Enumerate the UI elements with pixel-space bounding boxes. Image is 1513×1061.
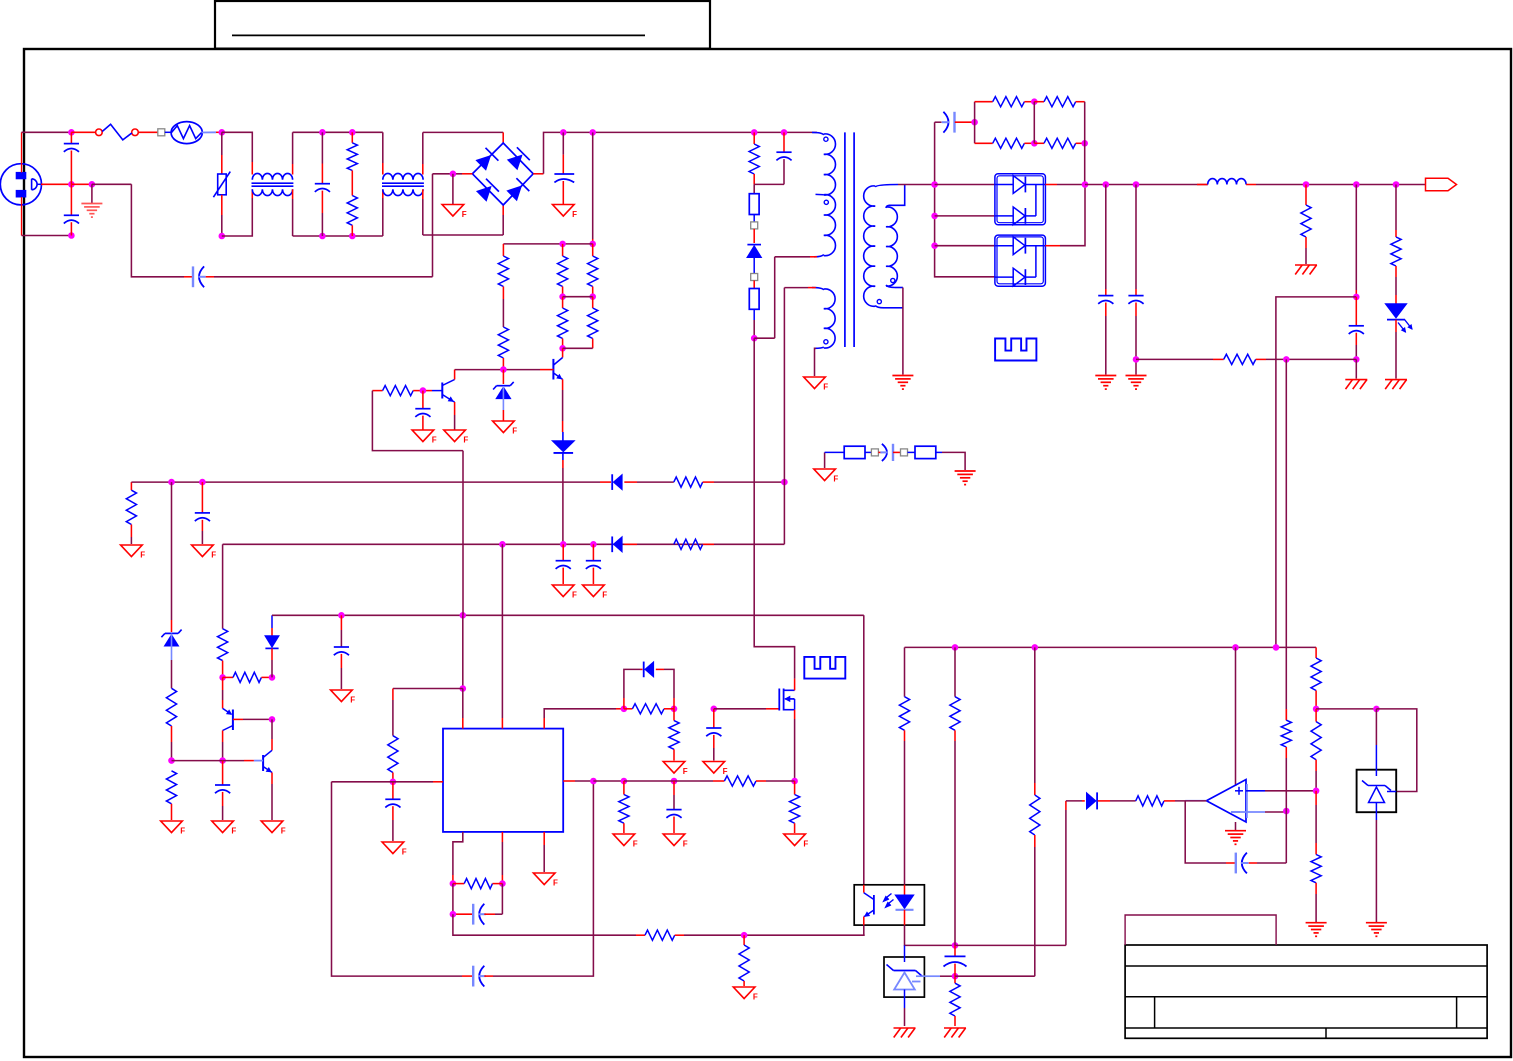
wire rail end [1315, 647, 1317, 658]
primary ground F Q2 [444, 430, 466, 442]
resistor R40 div [1285, 709, 1287, 720]
wire u1 pin gate [543, 718, 545, 729]
wire opamp out [1185, 800, 1206, 802]
node q3 coll [219, 757, 226, 764]
test square TP1 [158, 129, 165, 136]
node q3 base [269, 716, 276, 723]
node input top [68, 129, 75, 136]
svg-text:F: F [231, 827, 236, 836]
node fb rail out [1273, 644, 1280, 651]
wire sense line [1136, 358, 1213, 360]
wire top to choke2 [382, 132, 384, 163]
resistor R5a [562, 244, 564, 256]
wire choke2 tr up [422, 164, 424, 175]
resistor R21 aux1 [674, 477, 703, 487]
resistor R35 shunt [794, 781, 796, 795]
primary ground F c13 [331, 690, 353, 702]
shunt regulator U7 box [1357, 770, 1397, 813]
wire u1 pin b1 [453, 832, 463, 875]
wire snub net left [974, 102, 976, 144]
wire q4 feed [271, 719, 273, 739]
resistor R27 rt [388, 736, 398, 773]
node bleeder bottom [349, 233, 356, 240]
wire snub net right [1084, 102, 1086, 185]
svg-text:F: F [462, 210, 467, 219]
wire opto anode [904, 647, 906, 696]
resistor R43 mid [1315, 709, 1317, 722]
node r13 r14 [1031, 140, 1038, 147]
capacitor C8 y-bridge [878, 451, 882, 453]
resistor R42 top [1311, 658, 1321, 691]
common-mode choke L2 [383, 173, 423, 179]
earth ground shunt [1366, 922, 1387, 924]
capacitor C9 vcc [562, 544, 564, 560]
common-mode choke L1 [252, 173, 292, 179]
node cs a [621, 778, 628, 785]
wire tl431 ref [924, 975, 940, 977]
svg-text:F: F [683, 767, 688, 776]
node xcap bottom [319, 233, 326, 240]
wire opto cathode [905, 925, 956, 945]
wire tl431 anode [904, 1008, 906, 1026]
wire sec gnd [898, 307, 903, 309]
wire rt chain [393, 688, 463, 690]
thermistor RT1 [165, 131, 172, 133]
resistor R37 opto [899, 697, 909, 731]
shunt regulator U7 [1375, 709, 1377, 745]
svg-text:F: F [833, 475, 838, 484]
fusible resistor R18 [825, 451, 845, 453]
diode D9 u2b [995, 215, 1014, 217]
node line2 a [499, 541, 506, 548]
resistor R38 bias [954, 647, 956, 658]
diode D11 u3b [995, 276, 1014, 278]
capacitor C15 fb [462, 975, 472, 977]
test square TP3 [751, 274, 758, 281]
primary ground F r32 [663, 762, 685, 774]
node ref [952, 973, 959, 980]
capacitor C14 rt [392, 782, 394, 800]
earth ground input [91, 184, 93, 203]
transformer T1 aux winding [812, 288, 824, 290]
node source [791, 778, 798, 785]
node fb c [450, 911, 457, 918]
resistor R11 [975, 101, 993, 103]
wire u1 fb loop [332, 782, 463, 976]
resistor R6b [592, 297, 594, 308]
capacitor C11 line1 [201, 482, 203, 513]
node bridge minus [450, 171, 457, 178]
transistor Q3 pnp [222, 677, 224, 690]
wire bridge plus [533, 173, 543, 175]
LED D12 [1395, 295, 1397, 304]
wire choke2 br down [422, 189, 424, 199]
resistor R33 cs [593, 780, 624, 782]
node startup mid [559, 241, 566, 248]
capacitor CX2 earth [192, 266, 194, 287]
bridge diode D3 lower-left [477, 187, 490, 200]
resistor R17 led [1395, 185, 1397, 231]
wire shunt ref loop [1376, 709, 1416, 792]
wire u1 pin b3 [543, 832, 545, 845]
node base startup [500, 366, 507, 373]
transistor Q5 mosfet [778, 689, 780, 711]
wire u2 out [1045, 184, 1057, 186]
wire top input [22, 131, 72, 133]
node pair2 l [559, 345, 566, 352]
diode D7 clamp [753, 229, 755, 243]
wire sense div drop [1285, 359, 1287, 720]
test square TP4 [871, 449, 878, 456]
capacitor C2 q2 [422, 391, 424, 409]
capacitor C1 bulk [562, 132, 564, 154]
wire opamp plus [1246, 790, 1265, 792]
primary ground F r34 [613, 834, 635, 846]
wire out rail2 [1256, 184, 1426, 186]
svg-text:F: F [602, 591, 607, 600]
wire fuse feed [71, 131, 95, 133]
resistor R1 bleeder [351, 132, 353, 143]
primary ground F c11 [192, 545, 214, 557]
transistor Q2 [441, 383, 443, 399]
node startup right [589, 241, 596, 248]
resistor R6a [562, 297, 564, 308]
resistor R44 bot [1315, 791, 1317, 805]
capacitor C6 out [1135, 185, 1137, 290]
wire opamp minus [1240, 811, 1265, 813]
primary ground F bulk [553, 205, 575, 217]
capacitor C5 out [1105, 185, 1107, 290]
wire snub join [754, 183, 784, 185]
wire ref up [955, 975, 1035, 977]
wire choke1 stub tl [251, 162, 253, 175]
wire sec bus [935, 122, 995, 277]
heatsink HS1 [804, 657, 845, 679]
diode D6 Q1 emitter [562, 379, 564, 390]
capacitor C12 q3 [222, 761, 224, 785]
wire q2 fb loop [372, 391, 463, 451]
PWM controller U1 [443, 729, 563, 832]
zener D5 [502, 370, 504, 384]
capacitor C10 vcc [592, 544, 594, 560]
resistor R39 ref feed [1034, 647, 1036, 783]
wire top to choke1 [222, 132, 253, 162]
primary ground F r20 [121, 545, 143, 557]
node sense tap [1133, 356, 1140, 363]
diode D8 u2a [995, 184, 1014, 186]
wire shunt link [1316, 708, 1376, 710]
node minus [1283, 808, 1290, 815]
svg-text:F: F [350, 696, 355, 705]
primary ground F c14 [382, 842, 404, 854]
wire drain run [754, 338, 794, 678]
diode D10 u3a [995, 245, 1014, 247]
svg-text:F: F [140, 551, 145, 560]
capacitor C18 cs [673, 781, 675, 795]
diode D13 aux1 [610, 481, 612, 483]
svg-text:F: F [572, 210, 577, 219]
node fb a [450, 880, 457, 887]
varistor RV1 [221, 132, 223, 155]
resistor R41 comp [1136, 796, 1164, 806]
resistor R12 [1034, 101, 1044, 103]
node L filtered [219, 129, 226, 136]
node clamp bottom [751, 335, 758, 342]
wire tl431 bias [955, 944, 1066, 946]
node xcap top [319, 129, 326, 136]
resistor R24 [166, 771, 176, 804]
wire vsense branch [1276, 297, 1356, 648]
resistor R31 gate [624, 708, 633, 710]
resistor R20 line1 end [130, 482, 132, 490]
resistor R34 [623, 781, 625, 795]
node snub left [971, 119, 978, 126]
resistor R25 [218, 629, 228, 661]
wire line3 opto [863, 615, 865, 885]
primary ground F r24 [161, 821, 183, 833]
earth ground cout1 [1095, 375, 1116, 377]
wire choke1 stub bl [251, 189, 253, 198]
top title box [215, 1, 710, 49]
AC plug J1 [0, 164, 41, 205]
node gate a [621, 706, 628, 713]
wire plug line to top [21, 132, 23, 172]
node plus div [1313, 788, 1320, 795]
earth ground r44 [1306, 922, 1327, 924]
test square TP2 [751, 222, 758, 229]
resistor R29 opto [645, 930, 675, 940]
node fb b [499, 880, 506, 887]
node fb rail a [952, 644, 959, 651]
wire sec1 top [898, 184, 935, 186]
wire aux feed [783, 288, 785, 545]
wire aux line1 [131, 481, 600, 483]
chassis ground led [1385, 379, 1407, 381]
node ic pin top [460, 685, 467, 692]
transistor Q1 [552, 359, 554, 380]
primary ground F ycap [824, 452, 826, 468]
fusible resistor R9 [753, 184, 755, 193]
primary ground F c17 [703, 762, 725, 774]
heatsink HS2 [995, 339, 1036, 361]
TL431 U5 symbol [904, 945, 906, 962]
node bias r [269, 674, 276, 681]
wire earth riser [432, 174, 434, 277]
wire aux gnd [815, 348, 816, 376]
node fb rail opamp [1232, 644, 1239, 651]
capacitor C3 snubber [783, 132, 785, 152]
node sense div [1283, 356, 1290, 363]
diode D18 comp [1065, 810, 1067, 945]
primary ground F c12 [212, 821, 234, 833]
wire bottom to bridge [423, 234, 503, 236]
wire u3 out [1045, 245, 1060, 247]
op-amp U6 [1235, 647, 1237, 786]
wire earth stub [71, 183, 92, 185]
svg-text:F: F [553, 879, 558, 888]
node gate b [671, 706, 678, 713]
node tl431 k [952, 942, 959, 949]
capacitor C13 line3 [340, 615, 342, 630]
wire mid top [293, 131, 383, 133]
resistor R32 gate gnd [673, 709, 675, 721]
resistor R15 preload [1305, 185, 1307, 206]
resistor R22 aux2 [674, 539, 703, 549]
node line1 cap [199, 479, 206, 486]
primary ground F zener [493, 421, 515, 433]
revision box [1125, 915, 1276, 945]
node bias l [219, 674, 226, 681]
resistor R7 q2 base [372, 390, 382, 392]
node rect out [1082, 181, 1089, 188]
inductor L3 [1197, 184, 1208, 186]
resistor R28 fb [453, 883, 464, 885]
node bus rail [931, 181, 938, 188]
node r11 r12 [1031, 98, 1038, 105]
wire bus d2 [935, 215, 995, 217]
node fb rail b [1032, 644, 1039, 651]
wire primary bottom [810, 256, 817, 258]
primary ground F u1 [533, 873, 555, 885]
svg-text:F: F [803, 840, 808, 849]
wire opamp gnd [1235, 822, 1237, 831]
diode D17 gate bypass [623, 698, 625, 709]
transformer core [844, 132, 846, 347]
fusible resistor R19 [908, 451, 916, 453]
svg-text:F: F [432, 436, 437, 445]
test square TP5 [901, 449, 908, 456]
resistor R5b [592, 244, 594, 256]
wire u1 pin vcc [501, 544, 503, 718]
node bus d2 [931, 213, 938, 220]
wire fb rail [905, 646, 1317, 648]
wire opto emitter [863, 925, 865, 935]
primary ground F c10 [583, 585, 605, 597]
wire clamp to primary [754, 337, 775, 339]
wire cs mid [624, 780, 713, 782]
wire c7 dn [1355, 359, 1357, 378]
node input bottom [68, 232, 75, 239]
primary ground F q4 [261, 821, 283, 833]
fusible resistor R10 [753, 281, 755, 289]
wire top to bridge [423, 131, 503, 133]
node cs b [671, 778, 678, 785]
resistor R26 bias [223, 676, 233, 678]
wire pair join2 [563, 347, 593, 349]
transistor Q4 npn [262, 755, 264, 771]
node rt [390, 779, 397, 786]
primary ground F c18 [663, 834, 685, 846]
dual diode U2 box [995, 174, 1046, 225]
node cout2 [1133, 181, 1140, 188]
svg-text:F: F [633, 840, 638, 849]
transformer T1 primary [812, 132, 824, 135]
resistor R4 startup [498, 327, 508, 358]
transformer T1 secondary 2 [889, 185, 905, 206]
node startup tap [589, 129, 596, 136]
node aux vcc [781, 479, 788, 486]
node earth mid [68, 181, 75, 188]
node bus d3 [931, 242, 938, 249]
wire snub mid [1033, 102, 1035, 144]
resistor R36 ref [954, 976, 956, 983]
bridge diode D2 upper-right [508, 156, 521, 169]
node line1 zener [168, 479, 175, 486]
optocoupler U4 box [854, 885, 924, 925]
resistor R8 snubber [753, 132, 755, 144]
node shunt k [1373, 706, 1380, 713]
transformer T1 secondary 1 [875, 185, 898, 188]
capacitor C20 comp [1235, 853, 1237, 874]
node snub r [751, 129, 758, 136]
resistor R13 [975, 142, 993, 144]
node shunt top [1313, 706, 1320, 713]
node cout1 [1103, 181, 1110, 188]
resistor R3 startup [502, 244, 504, 256]
node snub c [781, 129, 788, 136]
wire pair join1 [563, 296, 593, 298]
capacitor C4 sec snub [935, 121, 942, 123]
wire bridge minus [462, 173, 472, 175]
bridge diode D4 lower-right [508, 187, 521, 200]
wire bottom input [22, 235, 72, 237]
node out led [1393, 181, 1400, 188]
chassis ground tl431 [894, 1027, 916, 1029]
wire out rail [1085, 184, 1208, 186]
dual diode U3 box [995, 235, 1046, 286]
wire plug neutral to bottom [21, 197, 23, 236]
node opto pull [741, 932, 748, 939]
wire bus d3 [935, 245, 995, 247]
node vsense1 [1353, 294, 1360, 301]
node bulk cap [560, 129, 567, 136]
wire mid bottom [293, 235, 383, 237]
svg-text:F: F [402, 848, 407, 857]
wire Q1 base [455, 369, 540, 371]
chassis ground preload [1295, 264, 1317, 266]
title block [1125, 945, 1487, 1038]
diode D16 bias [271, 615, 273, 628]
primary ground F bridge [452, 174, 454, 205]
node out tap [1353, 181, 1360, 188]
svg-text:F: F [823, 383, 828, 392]
wire gate stub [714, 708, 766, 710]
resistor R14 [1034, 142, 1044, 144]
wire u1 pin top1 [462, 689, 464, 719]
wire choke1 tr up [292, 164, 294, 175]
primary ground F r35 [784, 834, 806, 846]
node uvlo [168, 757, 175, 764]
wire aux top [808, 287, 816, 289]
node pair1 r [589, 293, 596, 300]
bridge diode D1 upper-left [477, 156, 490, 169]
wire earth mid [41, 183, 71, 185]
resistor R30 pull [743, 935, 745, 945]
wire earth return [131, 184, 184, 276]
wire bottom to choke2 [382, 198, 384, 236]
capacitor C17 gate [713, 709, 715, 728]
svg-text:F: F [572, 591, 577, 600]
wire u1 pin cs [563, 780, 575, 782]
wire startup top [503, 243, 592, 245]
svg-text:F: F [281, 827, 286, 836]
chassis ground r36 [944, 1027, 966, 1029]
node N bottom left [219, 233, 226, 240]
primary ground F aux [804, 377, 826, 389]
capacitor C19 ref [954, 945, 956, 956]
wire d in1 [935, 184, 995, 186]
chassis ground c7 [1345, 379, 1367, 381]
